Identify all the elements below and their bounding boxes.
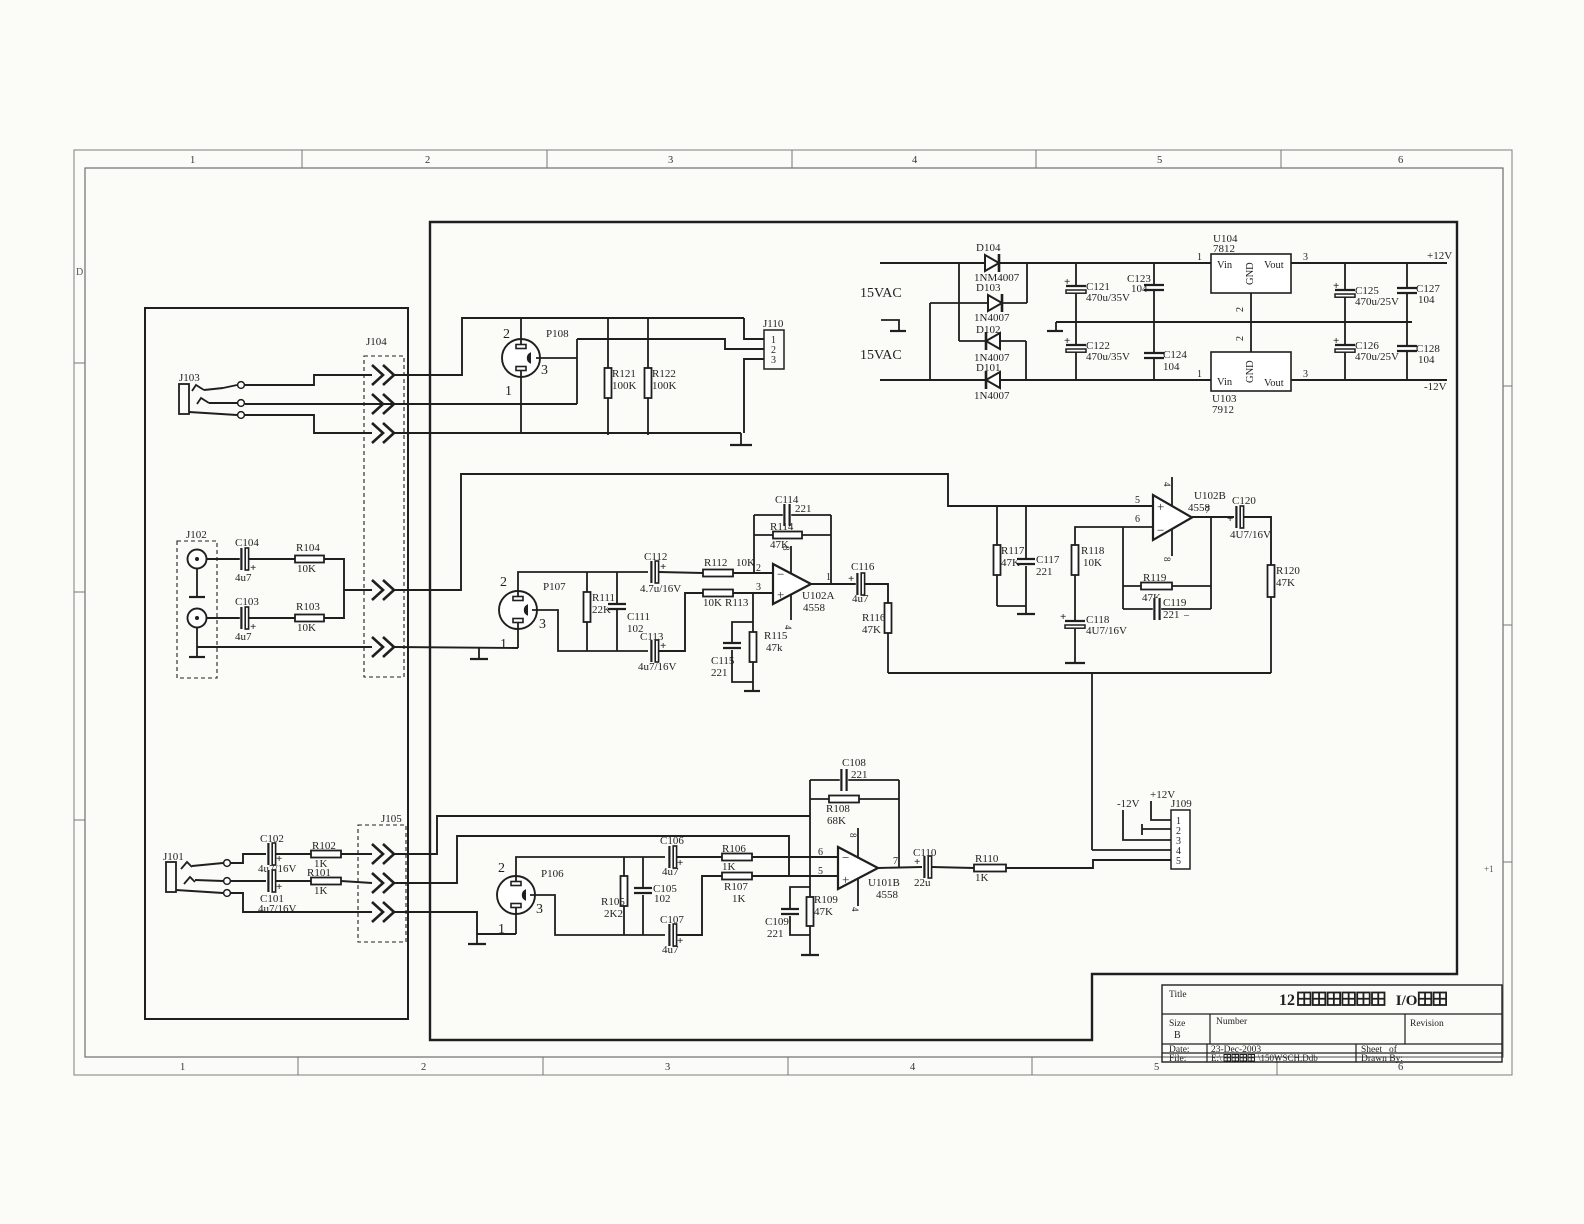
op-amp U101B 4558 [857,828,859,906]
svg-text:221: 221 [767,928,784,940]
svg-text:3: 3 [536,902,543,917]
J104 arrow signal [372,580,383,600]
svg-text:1: 1 [498,922,505,937]
svg-text:1: 1 [1197,369,1202,380]
svg-text:1: 1 [500,637,507,652]
wire P108 pin3 [536,357,577,359]
svg-text:7: 7 [1205,505,1210,516]
svg-text:File:: File: [1169,1054,1186,1064]
wire P106 pin3 to C107 row [530,895,665,935]
wire R104 to mix node [324,559,372,590]
svg-text:R121: R121 [612,368,636,380]
capacitor C105 102 [642,857,644,888]
svg-text:7: 7 [893,856,898,867]
svg-text:47k: 47k [766,642,783,654]
wire feedback left [753,515,755,572]
diode D103 1N4007 [930,302,988,304]
title block [1162,985,1502,1062]
svg-text:R110: R110 [975,853,999,865]
svg-text:10K: 10K [297,622,316,634]
svg-text:5: 5 [1154,1062,1159,1073]
wire -12V to J109 pin3 [1123,810,1171,840]
capacitor C109 221 [790,887,810,909]
wire J102-B signal [207,617,295,619]
svg-text:R116: R116 [862,612,886,624]
svg-text:Vin: Vin [1217,377,1233,388]
svg-text:C108: C108 [842,757,866,769]
wire AC top rail [880,262,1211,264]
svg-text:2: 2 [425,155,430,166]
capacitor C102 4u7/16V [267,843,275,865]
wire C116 to R116 [865,584,888,603]
svg-text:2K2: 2K2 [604,908,623,920]
svg-text:R117: R117 [1001,545,1025,557]
svg-text:D103: D103 [976,282,1001,294]
svg-text:+: + [276,881,282,893]
svg-text:+: + [848,573,854,585]
resistor R111 22K [586,572,588,651]
capacitor C127 104 [1406,263,1408,322]
svg-text:3: 3 [1303,369,1308,380]
svg-text:C106: C106 [660,835,684,847]
resistor R120 47K [1268,565,1275,597]
svg-text:+: + [1060,611,1066,623]
svg-text:C110: C110 [913,847,937,859]
svg-text:6: 6 [1135,514,1140,525]
svg-text:R104: R104 [296,542,320,554]
svg-text:1: 1 [1197,252,1202,263]
svg-text:Vin: Vin [1217,260,1233,271]
RCA jack J102-B [188,609,207,628]
regulator U104 7812 [1211,254,1291,293]
svg-text:−: − [842,850,849,865]
resistor R121 100K [607,318,609,435]
svg-text:10K: 10K [703,597,722,609]
svg-text:7812: 7812 [1213,243,1235,255]
wire bus to J109 pin4 [1091,673,1093,850]
svg-text:8: 8 [848,833,858,838]
J104 arrow pin 3 [372,423,383,443]
wire node pin3/ring junction vertical [576,339,578,404]
svg-text:6: 6 [818,847,823,858]
svg-text:4u7: 4u7 [662,944,679,956]
connector P107 XLR [499,591,537,629]
svg-text:C103: C103 [235,596,259,608]
svg-text:100K: 100K [652,380,677,392]
wire J109 pin2 stub [1141,824,1143,835]
svg-text:5: 5 [1176,856,1181,867]
wire R102 to J105-1 [341,853,372,855]
wire feedback right [830,515,832,584]
svg-text:3: 3 [539,617,546,632]
wire U101B output [878,867,922,868]
capacitor C123 104 [1153,263,1155,322]
op-amp U102A 4558 [790,546,792,620]
regulator U103 7912 [1211,352,1291,391]
svg-text:4: 4 [910,1062,916,1073]
svg-text:+: + [1227,513,1233,525]
svg-text:Drawn By:: Drawn By: [1361,1054,1403,1064]
svg-text:470u/25V: 470u/25V [1355,351,1399,363]
svg-text:C115: C115 [711,655,735,667]
svg-text:47K: 47K [770,539,789,551]
enclosure: main circuit box [430,222,1457,1040]
wire R103 to mix node [324,590,344,618]
svg-text:3: 3 [541,363,548,378]
svg-text:GND: GND [1245,262,1256,285]
wire AC bottom rail [880,379,1211,381]
svg-text:10K: 10K [736,557,755,569]
svg-text:47K: 47K [814,906,833,918]
svg-text:C124: C124 [1163,349,1187,361]
svg-text:4u7/16V: 4u7/16V [258,903,297,915]
wire U103 GND pin 2 [1250,322,1252,352]
resistor R109 47K [809,857,811,897]
wire C120 to R120 [1244,517,1271,565]
J105 arrow pin 1 [372,844,383,864]
svg-text:B: B [1174,1030,1181,1041]
svg-text:3: 3 [1303,252,1308,263]
svg-text:R103: R103 [296,601,320,613]
J104 arrow pin 2 [372,394,383,414]
capacitor C103 4u7 [240,607,248,629]
capacitor C106 4u7 [668,846,676,868]
svg-text:U101B: U101B [868,877,900,889]
svg-text:22u: 22u [914,877,931,889]
wire ground rail to J110 [394,432,741,434]
wire P106 pin2 up [516,857,665,882]
svg-text:Number: Number [1216,1017,1248,1027]
ground stub near P106 [476,934,478,943]
wire U102A output [811,583,856,585]
wire C106 to R106 [677,856,722,858]
svg-text:R122: R122 [652,368,676,380]
svg-text:+: + [1333,280,1339,292]
svg-text:102: 102 [654,893,671,905]
svg-text:4u7/16V: 4u7/16V [638,661,677,673]
svg-text:7912: 7912 [1212,404,1234,416]
svg-text:2: 2 [756,563,761,574]
svg-text:470u/25V: 470u/25V [1355,296,1399,308]
svg-text:I/O: I/O [1396,993,1418,1009]
svg-text:3: 3 [756,582,761,593]
svg-text:Vout: Vout [1264,378,1284,389]
svg-text:+: + [1333,335,1339,347]
connector P108 XLR [502,339,540,377]
svg-text:J110: J110 [763,318,784,330]
svg-text:J109: J109 [1171,798,1192,810]
svg-text:1: 1 [180,1062,185,1073]
svg-text:R118: R118 [1081,545,1105,557]
svg-text:+: + [777,587,784,602]
svg-text:R120: R120 [1276,565,1300,577]
svg-text:-12V: -12V [1424,381,1447,393]
wire R113 to U102A pin3 [733,592,773,594]
svg-text:R106: R106 [722,843,746,855]
wire P106 pin1 [515,908,517,934]
svg-text:68K: 68K [827,815,846,827]
svg-text:100K: 100K [612,380,637,392]
svg-text:3: 3 [771,355,776,366]
svg-text:4u7: 4u7 [235,631,252,643]
svg-text:C104: C104 [235,537,259,549]
svg-text:104: 104 [1418,294,1435,306]
wire P108 pin1 down [520,371,522,433]
svg-text:-12V: -12V [1117,798,1140,810]
svg-text:4558: 4558 [876,889,899,901]
wire P107 pin1 [517,623,519,648]
svg-text:C111: C111 [627,611,650,623]
wire C107 to R107 [677,876,722,935]
svg-text:15VAC: 15VAC [860,348,902,363]
svg-text:5: 5 [818,866,823,877]
wire +12V output rail [1291,262,1447,264]
svg-text:Revision: Revision [1410,1019,1444,1029]
svg-text:2: 2 [503,327,510,342]
svg-text:P107: P107 [543,581,566,593]
svg-text:104: 104 [1131,283,1148,295]
svg-text:104: 104 [1418,354,1435,366]
op-amp U102B 4558 [1171,477,1173,556]
svg-text:1K: 1K [732,893,746,905]
svg-text:R107: R107 [724,881,748,893]
capacitor C120 4U7/16V [1235,506,1243,528]
diode D102 1N4007 [958,263,960,341]
feedback resistor R114 47K [754,534,831,536]
svg-text:47K: 47K [1276,577,1295,589]
wire R117/C117 bottom [997,605,1026,607]
ground at rail end [740,433,742,444]
svg-text:5: 5 [1135,495,1140,506]
capacitor C125 470u/25V [1344,263,1346,322]
svg-text:4: 4 [783,625,793,630]
svg-text:R115: R115 [764,630,788,642]
wire J109 pin4 [1092,849,1171,851]
wire feedback right vertical [898,780,900,867]
svg-text:R108: R108 [826,803,850,815]
wire +12V to J109 pin1 [1151,801,1171,820]
svg-text:R105: R105 [601,896,625,908]
resistor R118 10K [1075,527,1153,545]
resistor R115 47k [752,593,754,632]
wire J104-1 to top rail [394,318,744,375]
wire R107 to U101B pin5 [752,875,838,877]
resistor R101 1K [276,880,311,882]
wire U104 GND pin 2 [1250,293,1252,322]
svg-text:R102: R102 [312,840,336,852]
wire R106 to U101B pin6 [752,856,838,858]
svg-text:−: − [777,566,784,581]
svg-text:+: + [1157,499,1164,514]
resistor R122 100K [647,318,649,435]
wire U102B output [1192,516,1234,518]
svg-text:1K: 1K [314,885,328,897]
capacitor C104 4u7 [240,548,248,570]
wire J102 ground to P107 pin1 [197,646,372,648]
capacitor C112 4.7u/16V [650,561,658,583]
wire ground to P107 [394,647,518,648]
svg-text:C107: C107 [660,914,684,926]
feedback resistor R108 68K [810,798,899,800]
transformer center tap symbol [881,320,899,331]
capacitor C116 4u7 [856,573,864,595]
svg-text:2: 2 [498,861,505,876]
wire R110 to J109 pin5 [1006,860,1171,868]
svg-text:R112: R112 [704,557,727,569]
svg-text:6: 6 [1398,155,1403,166]
svg-text:+: + [842,872,849,887]
wire J101 tip [192,863,223,866]
connector P106 XLR [497,876,535,914]
capacitor C126 470u/25V [1344,322,1346,380]
svg-text:P106: P106 [541,868,564,880]
svg-text:15VAC: 15VAC [860,286,902,301]
capacitor C124 104 [1153,322,1155,380]
svg-text:R119: R119 [1143,572,1167,584]
svg-text:C112: C112 [644,551,667,563]
svg-text:R109: R109 [814,894,838,906]
wire to J110 pin1 [744,318,764,339]
svg-text:–: – [1183,610,1190,621]
svg-text:4u7: 4u7 [235,572,252,584]
svg-text:221: 221 [851,769,868,781]
ground below R115 [752,682,754,690]
svg-text:Size: Size [1169,1019,1185,1029]
svg-text:4.7u/16V: 4.7u/16V [640,583,681,595]
svg-text:GND: GND [1245,360,1256,383]
ground below C117 [1025,606,1027,613]
svg-text:J105: J105 [381,813,402,825]
diode D101 1N4007 [986,372,1000,388]
resistor R102 1K [276,853,311,855]
RCA jack J102-A [188,550,207,569]
svg-text:47K: 47K [862,624,881,636]
resistor R105 2K2 [623,857,625,876]
capacitor C107 4u7 [668,924,676,946]
svg-text:D102: D102 [976,324,1000,336]
svg-text:3: 3 [668,155,673,166]
svg-text:Vout: Vout [1264,260,1284,271]
svg-text:R101: R101 [307,867,331,879]
svg-text:U102A: U102A [802,590,834,602]
svg-text:\150WSCH.Ddb: \150WSCH.Ddb [1258,1053,1318,1063]
ground below R109 [801,954,819,956]
svg-text:+1: +1 [1484,864,1494,874]
svg-text:J103: J103 [179,372,200,384]
svg-text:4: 4 [1162,482,1172,487]
wire J103 sleeve [189,412,237,415]
svg-text:J104: J104 [366,336,387,348]
wire P107 pin3 to C113 row [532,610,648,651]
wire GND mid rail [1056,321,1412,323]
resistor R116 47K [885,603,892,633]
wire J103 tip to J104 pin 1 [204,388,223,390]
connector J110 [764,330,784,369]
svg-text:221: 221 [1163,609,1180,621]
svg-text:4558: 4558 [803,602,826,614]
svg-text:2: 2 [500,575,507,590]
wire C113 to R113 [659,593,703,651]
svg-text:R113: R113 [725,597,749,609]
svg-text:221: 221 [795,503,812,515]
svg-text:2: 2 [421,1062,426,1073]
svg-text:221: 221 [1036,566,1053,578]
svg-text:D: D [76,267,83,278]
capacitor C128 104 [1406,322,1408,380]
svg-text:3: 3 [665,1062,670,1073]
resistor R106 1K [722,854,752,861]
capacitor C117 221 [1025,506,1027,559]
resistor R117 47K [996,506,998,545]
capacitor C115 221 [732,622,753,643]
svg-text:C119: C119 [1163,597,1187,609]
svg-text:1N4007: 1N4007 [974,312,1010,324]
resistor R107 1K [722,873,752,880]
svg-text:1: 1 [505,384,512,399]
feedback capacitor C108 221 [810,779,899,781]
svg-text:4u7/16V: 4u7/16V [258,863,297,875]
feedback capacitor C119 221 [1123,608,1211,610]
svg-text:10K: 10K [297,563,316,575]
svg-text:C117: C117 [1036,554,1060,566]
capacitor C113 4u7/16V [650,640,658,662]
wire C112 to R112 [659,572,703,573]
wire J101 sleeve [176,890,223,893]
svg-text:R111: R111 [592,592,615,604]
svg-text:D104: D104 [976,242,1001,254]
svg-text:C102: C102 [260,833,284,845]
svg-text:4: 4 [850,907,860,912]
wire J102-A signal [207,558,295,560]
svg-text:C113: C113 [640,631,664,643]
wire feedback left vertical [809,780,811,857]
J105 arrow pin 2 [372,873,383,893]
svg-text:470u/35V: 470u/35V [1086,292,1130,304]
svg-text:C116: C116 [851,561,875,573]
wire signal to U102B input [394,474,1153,590]
wire to J110 pin3 [744,359,764,433]
svg-text:+12V: +12V [1427,250,1452,262]
svg-text:5: 5 [1157,155,1162,166]
svg-text:4u7: 4u7 [852,593,869,605]
svg-text:2: 2 [1235,307,1246,312]
svg-text:+: + [1064,335,1070,347]
svg-text:2: 2 [1235,336,1246,341]
svg-text:8: 8 [1162,557,1172,562]
ground below C118 [1065,662,1085,664]
capacitor C110 22u [923,856,931,878]
resistor R110 1K [974,865,1006,872]
svg-text:R114: R114 [770,521,794,533]
svg-text:470u/35V: 470u/35V [1086,351,1130,363]
svg-text:4U7/16V: 4U7/16V [1230,529,1271,541]
enclosure: input connector panel box [145,308,408,1019]
wire P107 pin2 up [518,572,648,597]
wire P108 pin2 to rail [520,318,522,345]
resistor R103 10K [295,615,324,622]
capacitor C111 102 [616,572,618,651]
svg-text:4: 4 [912,155,918,166]
svg-text:1K: 1K [722,861,736,873]
svg-text:C109: C109 [765,916,789,928]
svg-text:4u7: 4u7 [662,866,679,878]
wire J105-3 to P106 pin1 [394,912,516,934]
svg-text:1K: 1K [975,872,989,884]
wire feedback right vertical [1210,517,1212,609]
wire R112 to U102A pin2 [733,572,773,574]
svg-text:C120: C120 [1232,495,1256,507]
svg-text:1N4007: 1N4007 [974,390,1010,402]
